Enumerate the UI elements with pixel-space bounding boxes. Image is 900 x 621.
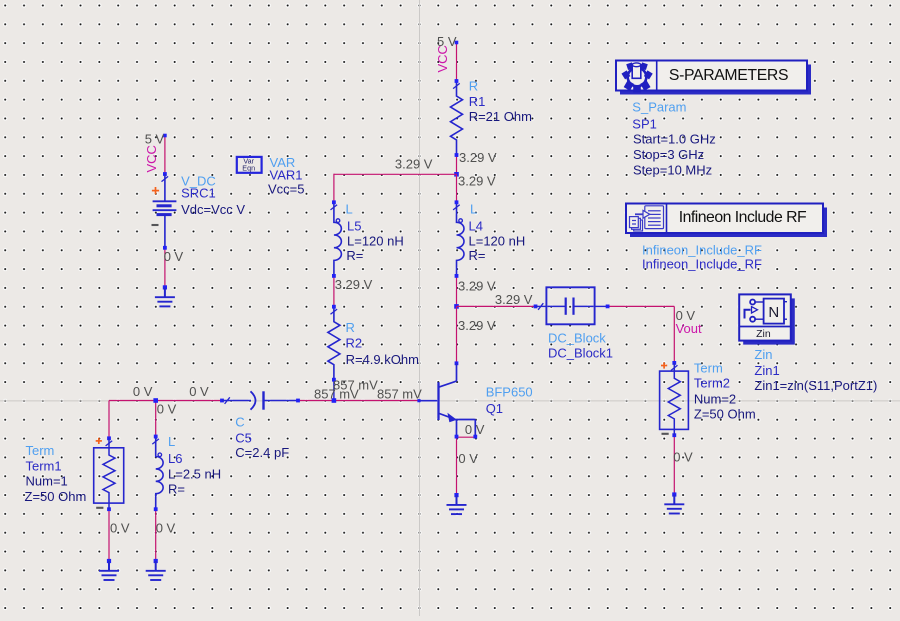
svg-text:SP1: SP1 [632,116,657,131]
svg-text:VCC: VCC [435,45,450,72]
resistor R2 [328,307,340,380]
svg-text:5 V: 5 V [145,131,165,146]
svg-text:3.29 V: 3.29 V [458,318,496,333]
svg-text:L: L [470,202,477,217]
svg-text:0 V: 0 V [157,402,177,417]
svg-text:Zin: Zin [754,347,772,362]
svg-text:BFP650: BFP650 [486,385,533,400]
wire DC_Block to Vout corner [608,305,675,307]
svg-text:L=120 nH: L=120 nH [469,233,526,248]
svg-text:3.29 V: 3.29 V [395,157,433,172]
svg-text:L5: L5 [347,218,361,233]
wire horizontal junction A to L5 branch [334,173,457,175]
svg-text:Stop=3 GHz: Stop=3 GHz [633,147,704,162]
svg-text:5 V: 5 V [437,34,457,49]
transistor Q1 [455,361,459,365]
svg-text:L4: L4 [469,218,483,233]
wire Term2 to ground [673,435,675,494]
wire emitter jumper [457,436,476,438]
ground emitter [454,493,458,497]
svg-text:DC_Block: DC_Block [548,330,606,345]
svg-text:0 V: 0 V [133,384,153,399]
svg-text:Infineon_Include_RF: Infineon_Include_RF [642,257,762,272]
wire L5 to R2 [333,276,335,307]
port Term2 [672,361,676,365]
svg-text:0 V: 0 V [156,520,176,535]
wire Term1 to ground [108,509,110,561]
svg-text:Infineon Include RF: Infineon Include RF [679,209,807,226]
inductor L4 [457,202,464,276]
node base wire end [417,399,420,402]
svg-text:Step=10 MHz: Step=10 MHz [633,163,712,178]
svg-text:VAR1: VAR1 [270,167,303,182]
node R2 base junction [332,398,337,403]
svg-text:Vout: Vout [676,321,702,336]
svg-text:DC_Block1: DC_Block1 [548,345,613,360]
ground Term1 [107,559,111,563]
svg-text:Term2: Term2 [694,376,730,391]
wire junction A to L4 [456,174,458,202]
svg-text:R: R [469,78,478,93]
ground L6 [154,559,158,563]
wire junction B to DC_Block [457,305,536,307]
svg-text:3.29 V: 3.29 V [335,277,373,292]
svg-text:C: C [235,415,244,430]
svg-text:0 V: 0 V [110,520,130,535]
var equation VAR1 [237,157,262,173]
svg-text:Start=1.0 GHz: Start=1.0 GHz [633,132,716,147]
svg-text:Term: Term [694,360,723,375]
svg-text:Num=2: Num=2 [694,391,736,406]
svg-text:0 V: 0 V [465,422,485,437]
wire SRC1 minus to ground [164,248,166,288]
svg-text:R=: R= [469,248,486,263]
svg-text:R1: R1 [469,94,486,109]
Zin block [743,298,795,344]
svg-text:3.29 V: 3.29 V [459,150,497,165]
svg-text:L=120 nH: L=120 nH [347,233,404,248]
svg-text:0 V: 0 V [189,384,209,399]
svg-text:3.29 V: 3.29 V [495,292,533,307]
wire Vout corner down to Term2 [673,306,675,363]
svg-text:Eqn: Eqn [242,164,255,173]
voltage source SRC1 [163,172,167,176]
Infineon Include RF block [630,208,827,238]
svg-text:S_Param: S_Param [632,100,686,115]
svg-text:R2: R2 [346,336,363,351]
svg-text:R=4.9 kOhm: R=4.9 kOhm [346,352,419,367]
svg-text:Zin1: Zin1 [754,363,779,378]
svg-text:S-PARAMETERS: S-PARAMETERS [669,67,788,84]
wire L6 to ground [155,509,157,561]
inductor L5 [334,202,341,276]
svg-text:L6: L6 [168,451,182,466]
wire SRC1 top [164,136,166,175]
svg-text:Vcc=5: Vcc=5 [268,181,305,196]
node B junction [454,304,459,309]
svg-text:Num=1: Num=1 [26,474,68,489]
wire emitter to ground [456,437,458,495]
wire input corner down to Term1 [108,401,110,439]
svg-text:Z=50 Ohm: Z=50 Ohm [694,407,756,422]
svg-text:Z=50 Ohm: Z=50 Ohm [25,489,87,504]
svg-text:L: L [346,202,353,217]
S-PARAMETERS block [620,65,811,95]
inductor L6 [156,437,163,510]
major grid line horizontal [0,400,900,402]
wire VCC top to R1 [456,43,458,82]
svg-text:VCC: VCC [144,145,159,172]
wire R2 to base node [333,380,335,401]
svg-text:L: L [168,434,175,449]
node A junction [454,172,459,177]
port Term1 [107,436,111,440]
svg-text:R=: R= [168,482,185,497]
capacitor C5 [220,399,224,403]
svg-text:857 mV: 857 mV [314,386,359,401]
svg-text:R: R [346,320,355,335]
svg-text:Term1: Term1 [26,458,62,473]
wire input horizontal left segment [109,400,222,402]
svg-text:Zin: Zin [756,328,771,340]
dc block DC_Block1 [534,305,538,309]
svg-text:SRC1: SRC1 [181,186,216,201]
svg-text:Zin1=zin(S11,PortZ1): Zin1=zin(S11,PortZ1) [754,378,877,393]
svg-text:0 V: 0 V [673,449,693,464]
svg-text:R=21 Ohm: R=21 Ohm [469,109,532,124]
wire L5 branch down [333,174,335,203]
ground Term2 [672,492,676,496]
svg-text:Vdc=Vcc V: Vdc=Vcc V [181,202,245,217]
wire L4 to junction B [456,276,458,307]
svg-text:3.29 V: 3.29 V [458,174,496,189]
svg-text:0 V: 0 V [676,308,696,323]
wire C5 to base [298,400,419,402]
svg-text:857 mV: 857 mV [377,386,422,401]
wire R1 to junction A [456,155,458,174]
svg-text:0 V: 0 V [458,451,478,466]
svg-text:N: N [768,304,779,321]
svg-text:C5: C5 [235,431,252,446]
major grid line vertical [419,0,421,616]
svg-text:Term: Term [26,443,55,458]
wire L6 branch down [155,401,157,437]
svg-text:Infineon_Include_RF: Infineon_Include_RF [642,243,762,258]
ground SRC1 [163,285,167,289]
svg-text:R=: R= [346,248,363,263]
node L6 junction [153,398,158,403]
svg-text:Q1: Q1 [486,401,503,416]
svg-text:L=2.5 nH: L=2.5 nH [168,466,221,481]
svg-text:0 V: 0 V [164,249,184,264]
svg-text:3.29 V: 3.29 V [458,279,496,294]
resistor R1 [451,81,463,155]
svg-text:C=2.4 pF: C=2.4 pF [235,445,289,460]
wire junction B down to collector [456,306,458,363]
